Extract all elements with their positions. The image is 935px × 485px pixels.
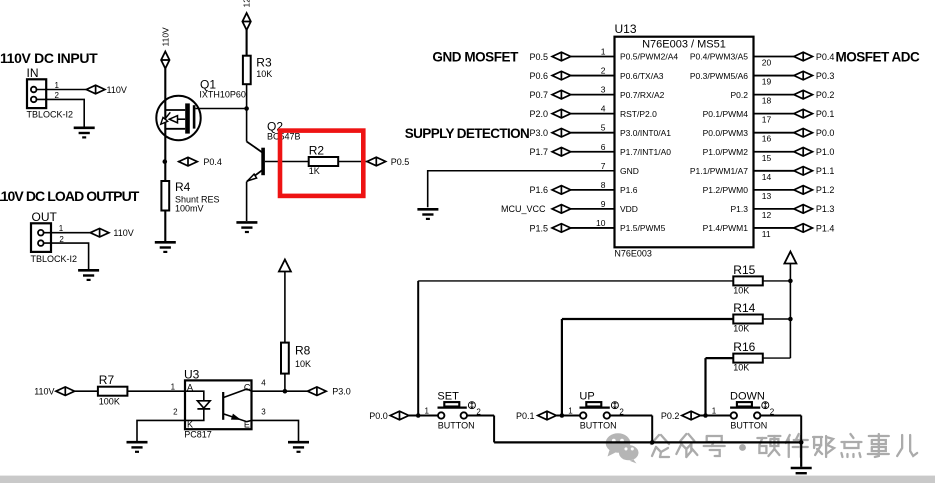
wire 12V to R3: [246, 30, 248, 56]
wire DOWN pin2 down: [800, 416, 802, 443]
svg-text:16: 16: [762, 134, 772, 144]
svg-text:P0.0: P0.0: [816, 128, 835, 138]
terminal 110V (output): [90, 228, 109, 237]
pin 17 (P0.1/PWM4): [703, 109, 772, 125]
terminal P3.0: [529, 128, 570, 138]
svg-text:10K: 10K: [256, 69, 272, 79]
terminal P1.6: [529, 185, 570, 195]
terminal P0.4: [794, 52, 835, 62]
terminal P0.6: [529, 71, 570, 81]
pin 14 (P1.1/PWM1/A7): [690, 166, 772, 182]
ground (buttons): [791, 468, 812, 478]
svg-text:2: 2: [601, 66, 606, 76]
pin 15 (P1.0/PWM2): [703, 147, 772, 163]
wire R14 to rail: [763, 318, 791, 320]
svg-text:P0.3/PWM5/A6: P0.3/PWM5/A6: [690, 71, 748, 81]
switch SET (BUTTON): [425, 390, 482, 430]
wire column R15 down to button: [417, 281, 419, 416]
wire P0.0 to SET pin1: [409, 415, 438, 417]
svg-text:110V: 110V: [113, 228, 133, 238]
svg-text:P1.0: P1.0: [816, 147, 835, 157]
terminal P0.1: [794, 109, 835, 119]
wire pin 17 to P0.1: [754, 113, 794, 115]
svg-text:1: 1: [59, 224, 64, 233]
wire SET pin2 down: [493, 416, 495, 443]
wire U13 GND pin to ground: [428, 171, 615, 208]
watermark wechat icon: [606, 433, 639, 463]
terminal P0.2: [661, 411, 701, 421]
svg-text:P1.4/PWM1: P1.4/PWM1: [703, 223, 749, 233]
svg-text:BUTTON: BUTTON: [730, 421, 767, 431]
wire pull-up rail: [789, 264, 791, 359]
wire R7 to U3 pin1: [127, 390, 185, 392]
terminal P0.4 (left): [179, 157, 198, 166]
svg-text:P0.2: P0.2: [816, 90, 835, 100]
pin 9 (VDD): [601, 199, 638, 214]
svg-text:MCU_VCC: MCU_VCC: [501, 204, 546, 214]
svg-text:8: 8: [601, 180, 606, 190]
svg-text:9: 9: [601, 199, 606, 209]
svg-text:GND MOSFET: GND MOSFET: [432, 50, 519, 65]
svg-text:BUTTON: BUTTON: [438, 421, 475, 431]
terminal P0.7: [529, 90, 570, 100]
decorative bottom bar: [0, 476, 935, 483]
svg-text:3: 3: [601, 85, 606, 95]
terminal P0.0: [794, 128, 835, 138]
svg-text:P0.2: P0.2: [661, 411, 680, 421]
svg-text:P3.0: P3.0: [529, 128, 548, 138]
pin 16 (P0.0/PWM3): [703, 128, 772, 144]
ground (U3 pin3): [288, 442, 309, 452]
svg-text:BC547B: BC547B: [267, 132, 301, 142]
pin 13 (P1.2/PWM0): [703, 185, 772, 201]
wire U3 pin4 to P3.0: [252, 390, 308, 392]
wire arrow to R8: [284, 272, 286, 343]
pin 11 (P1.4/PWM1): [703, 223, 771, 239]
terminal P1.4: [794, 223, 835, 233]
svg-text:P0.0: P0.0: [369, 411, 388, 421]
node UP-gnd: [650, 440, 655, 445]
svg-text:N76E003: N76E003: [614, 248, 652, 258]
wire R8 to node: [284, 374, 286, 392]
svg-text:P0.7/RX/A2: P0.7/RX/A2: [620, 90, 665, 100]
svg-text:17: 17: [762, 115, 772, 125]
wire U3 pin3 to ground: [252, 420, 299, 441]
resistor R15: [733, 263, 763, 295]
svg-text:4: 4: [601, 104, 606, 114]
svg-text:R8: R8: [295, 343, 311, 357]
wire pin 14 to P1.1: [754, 170, 794, 172]
wire Q2 base to R2: [265, 161, 309, 163]
node R8 junction: [283, 389, 288, 394]
svg-text:10K: 10K: [733, 323, 749, 333]
svg-text:GND: GND: [620, 166, 639, 176]
svg-text:P0.4: P0.4: [816, 52, 835, 62]
svg-text:12V: 12V: [241, 0, 251, 8]
pin 2 (P0.6/TX/A3): [601, 66, 664, 81]
svg-text:PC817: PC817: [184, 430, 212, 440]
ground (U13 pin7): [417, 209, 438, 219]
svg-text:19: 19: [762, 77, 772, 87]
resistor R2: [309, 143, 339, 176]
svg-text:P0.1: P0.1: [516, 411, 535, 421]
svg-text:3: 3: [261, 408, 266, 417]
svg-text:BUTTON: BUTTON: [580, 421, 617, 431]
svg-text:1: 1: [568, 407, 573, 416]
svg-text:110V: 110V: [34, 387, 54, 397]
svg-text:R7: R7: [99, 373, 115, 387]
svg-text:P1.7/INT1/A0: P1.7/INT1/A0: [620, 147, 671, 157]
node DOWN junction: [703, 413, 708, 418]
svg-text:R2: R2: [309, 143, 325, 157]
wire column R14 down to button: [561, 319, 563, 416]
svg-text:1: 1: [171, 382, 176, 391]
ground (U3 pin2): [127, 442, 148, 452]
svg-text:P1.5/PWM5: P1.5/PWM5: [620, 223, 666, 233]
wire OUT pin1 to 110V terminal: [44, 232, 91, 234]
svg-text:4: 4: [261, 378, 266, 387]
svg-text:P3.0: P3.0: [332, 387, 351, 397]
transistor Q1 IXTH10P60 (P-MOSFET): [156, 78, 246, 141]
svg-text:P1.1: P1.1: [816, 166, 835, 176]
svg-text:UP: UP: [579, 390, 594, 402]
terminal P1.2: [794, 185, 835, 195]
power terminal 110V (rail): [161, 27, 171, 47]
wire node to Q2 collector: [246, 109, 248, 142]
svg-text:R3: R3: [256, 56, 272, 70]
wire UP pin2 down: [651, 416, 653, 443]
wire R16 to button column: [706, 357, 734, 359]
wire Q2 emitter to ground: [246, 182, 248, 221]
svg-text:110V: 110V: [107, 85, 127, 95]
svg-text:SUPPLY DETECTION: SUPPLY DETECTION: [405, 126, 529, 141]
wire pin 13 to P1.2: [754, 189, 794, 191]
svg-text:OUT: OUT: [32, 210, 58, 224]
wire column R16 down to button: [704, 358, 706, 415]
wire R14 to button column: [562, 318, 733, 320]
wire pin 20 to P0.4: [754, 56, 794, 58]
wire Q1 gate to node: [195, 108, 246, 110]
terminal 110V (input): [86, 85, 105, 94]
svg-text:P0.4/PWM3/A5: P0.4/PWM3/A5: [690, 52, 748, 62]
wire U3 pin2 to ground: [137, 420, 185, 441]
terminal P1.3: [794, 204, 835, 214]
IC U13 N76E003/MS51: [614, 22, 753, 258]
wire pin 11 to P1.4: [754, 227, 794, 229]
svg-text:R4: R4: [175, 180, 191, 194]
wire button common ground run: [494, 441, 801, 443]
terminal P3.0 (supply detect): [308, 387, 351, 397]
svg-text:P0.5: P0.5: [391, 157, 410, 167]
svg-text:110V DC INPUT: 110V DC INPUT: [0, 50, 98, 66]
wire P0.7 to pin 3: [571, 94, 615, 96]
ground (Q2): [236, 222, 257, 232]
wire pin 19 to P0.3: [754, 75, 794, 77]
svg-text:1: 1: [601, 47, 606, 57]
svg-text:P2.0: P2.0: [529, 109, 548, 119]
connector J IN (TBLOCK-I2): [27, 66, 74, 120]
wire 110V to R7: [75, 390, 98, 392]
node DOWN-gnd: [799, 440, 804, 445]
terminal P0.0: [369, 411, 409, 421]
pin 6 (P1.7/INT1/A0): [601, 142, 672, 157]
svg-text:2: 2: [173, 408, 178, 417]
svg-text:P1.7: P1.7: [529, 147, 548, 157]
terminal P0.5: [529, 52, 570, 62]
wire to bottom ground: [800, 442, 802, 466]
svg-text:1: 1: [55, 81, 60, 90]
resistor R16: [733, 340, 763, 372]
svg-text:SET: SET: [437, 390, 459, 402]
svg-text:TBLOCK-I2: TBLOCK-I2: [27, 110, 74, 120]
svg-text:100K: 100K: [99, 397, 120, 407]
wire R16 to rail: [763, 357, 791, 359]
wire R15 to rail: [763, 280, 791, 282]
svg-text:P1.3: P1.3: [816, 204, 835, 214]
svg-text:10K: 10K: [733, 285, 749, 295]
svg-text:1: 1: [712, 407, 717, 416]
svg-text:12: 12: [762, 210, 772, 220]
svg-text:110V: 110V: [161, 27, 171, 47]
svg-text:P0.1/PWM4: P0.1/PWM4: [703, 109, 749, 119]
wire P0.6 to pin 2: [571, 75, 615, 77]
svg-text:P1.4: P1.4: [816, 223, 835, 233]
node UP junction: [560, 413, 565, 418]
node gate junction: [244, 106, 249, 111]
svg-text:P1.0/PWM2: P1.0/PWM2: [703, 147, 749, 157]
wire P0.2 to DOWN pin1: [700, 415, 730, 417]
power arrow (pull-up rail): [784, 252, 796, 264]
connector J OUT (TBLOCK-I2): [31, 210, 78, 264]
svg-text:U13: U13: [615, 22, 637, 36]
pin 19 (P0.3/PWM5/A6): [690, 71, 772, 87]
wire pin 18 to P0.2: [754, 94, 794, 96]
terminal P1.7: [529, 147, 570, 157]
wire R2 to P0.5 terminal: [338, 161, 367, 163]
wire IN pin1 to 110V terminal: [37, 89, 87, 91]
svg-text:15: 15: [762, 153, 772, 163]
wire pin 12 to P1.3: [754, 208, 794, 210]
svg-text:14: 14: [762, 172, 772, 182]
wire P1.7 to pin 6: [571, 151, 615, 153]
ground (R4): [155, 242, 176, 252]
svg-text:P1.2/PWM0: P1.2/PWM0: [703, 185, 749, 195]
svg-text:7: 7: [601, 161, 606, 171]
terminal MCU_VCC: [501, 204, 571, 214]
svg-text:20: 20: [762, 58, 772, 68]
resistor R4: [161, 180, 219, 213]
svg-text:P0.4: P0.4: [203, 157, 222, 167]
wire SET pin2: [467, 415, 494, 417]
wire P3.0 to pin 5: [571, 132, 615, 134]
wire IN pin2 to ground: [37, 99, 85, 127]
svg-text:P0.5/PWM2/A4: P0.5/PWM2/A4: [620, 52, 678, 62]
svg-text:P0.7: P0.7: [529, 90, 548, 100]
power arrow (R8 pull-up): [279, 260, 291, 272]
svg-text:11: 11: [762, 229, 771, 239]
terminal P1.0: [794, 147, 835, 157]
svg-text:R15: R15: [733, 263, 755, 277]
svg-text:IN: IN: [27, 66, 39, 80]
transistor Q2 BC547B (NPN): [247, 119, 301, 181]
watermark text 公众号·硬件那点事儿: [651, 434, 917, 457]
svg-text:TBLOCK-I2: TBLOCK-I2: [31, 254, 78, 264]
wire UP pin2: [610, 415, 652, 417]
resistor R14: [733, 301, 763, 333]
terminal P1.1: [794, 166, 835, 176]
svg-text:110V DC LOAD OUTPUT: 110V DC LOAD OUTPUT: [0, 188, 140, 204]
terminal P0.1: [516, 411, 556, 421]
svg-text:P0.5: P0.5: [529, 52, 548, 62]
wire node to P0.4 terminal: [177, 161, 180, 163]
node SET junction: [416, 413, 421, 418]
switch UP (BUTTON): [568, 390, 624, 430]
svg-text:IXTH10P60: IXTH10P60: [199, 90, 246, 100]
svg-text:10: 10: [596, 218, 606, 228]
terminal P0.3: [794, 71, 835, 81]
pin 3 (P0.7/RX/A2): [601, 85, 665, 100]
svg-text:P1.6: P1.6: [620, 185, 638, 195]
wire P1.5 to pin 10: [571, 227, 615, 229]
wire R15 to button column: [418, 280, 733, 282]
svg-text:VDD: VDD: [620, 204, 638, 214]
switch DOWN (BUTTON): [712, 390, 775, 430]
svg-text:P1.1/PWM1/A7: P1.1/PWM1/A7: [690, 166, 748, 176]
wire DOWN pin2: [760, 415, 801, 417]
ground (IN pin2): [74, 128, 95, 138]
svg-text:10K: 10K: [733, 363, 749, 373]
svg-text:P1.5: P1.5: [529, 223, 548, 233]
node P0.4 junction: [163, 159, 168, 164]
wire R4 to ground: [164, 211, 166, 242]
ground (OUT pin2): [78, 270, 99, 280]
svg-text:P0.6/TX/A3: P0.6/TX/A3: [620, 71, 664, 81]
svg-text:P1.2: P1.2: [816, 185, 835, 195]
wire pin 15 to P1.0: [754, 151, 794, 153]
node R15-rail: [788, 279, 793, 284]
svg-text:P1.3: P1.3: [731, 204, 749, 214]
wire OUT pin2 to ground: [44, 243, 89, 269]
pin 7 (GND): [601, 161, 639, 176]
wire P2.0 to pin 4: [571, 113, 615, 115]
svg-text:RST/P2.0: RST/P2.0: [620, 109, 657, 119]
resistor R7: [98, 373, 128, 406]
optocoupler U3 PC817: [184, 368, 252, 440]
pin 4 (RST/P2.0): [601, 104, 657, 119]
svg-text:100mV: 100mV: [175, 203, 204, 213]
svg-text:P0.3: P0.3: [816, 71, 835, 81]
svg-text:5: 5: [601, 123, 606, 133]
svg-text:P0.2: P0.2: [731, 90, 749, 100]
red highlight rectangle: [280, 131, 363, 196]
wire pin 16 to P0.0: [754, 132, 794, 134]
power terminal 12V: [241, 0, 251, 8]
svg-text:P0.6: P0.6: [529, 71, 548, 81]
wire 110V rail to P0.4 node (through Q1): [164, 69, 166, 162]
terminal P2.0: [529, 109, 570, 119]
pin 10 (P1.5/PWM5): [596, 218, 666, 233]
pin 5 (P3.0/INT0/A1): [601, 123, 672, 138]
node R14-rail: [788, 317, 793, 322]
wire P0.1 to UP pin1: [556, 415, 580, 417]
svg-text:N76E003 / MS51: N76E003 / MS51: [642, 39, 726, 51]
terminal P0.5 (Q2 base): [367, 157, 386, 166]
svg-text:P0.0/PWM3: P0.0/PWM3: [703, 128, 749, 138]
svg-text:6: 6: [601, 142, 606, 152]
svg-text:18: 18: [762, 96, 772, 106]
resistor R8: [281, 343, 311, 374]
svg-text:DOWN: DOWN: [730, 390, 765, 402]
pin 1 (P0.5/PWM2/A4): [601, 47, 679, 62]
svg-text:P0.1: P0.1: [816, 109, 835, 119]
svg-text:R16: R16: [733, 340, 755, 354]
wire P0.5 to pin 1: [571, 56, 615, 58]
pin 8 (P1.6): [601, 180, 638, 195]
terminal 110V (R7): [34, 387, 74, 397]
svg-text:13: 13: [762, 191, 772, 201]
svg-text:R14: R14: [733, 301, 755, 315]
resistor R3: [243, 56, 272, 85]
svg-text:P1.6: P1.6: [529, 185, 548, 195]
pin 20 (P0.4/PWM3/A5): [690, 52, 772, 68]
pin 12 (P1.3): [731, 204, 772, 220]
wire P1.6 to pin 8: [571, 189, 615, 191]
svg-text:10K: 10K: [295, 359, 311, 369]
wire MCU_VCC to pin 9: [571, 208, 615, 210]
pin 18 (P0.2): [731, 90, 772, 106]
svg-text:1K: 1K: [309, 166, 320, 176]
svg-text:1: 1: [425, 407, 430, 416]
svg-text:P3.0/INT0/A1: P3.0/INT0/A1: [620, 128, 671, 138]
wire node to R4: [164, 162, 166, 181]
svg-text:MOSFET ADC: MOSFET ADC: [836, 50, 920, 65]
terminal P0.2: [794, 90, 835, 100]
terminal P1.5: [529, 223, 570, 233]
wire R3 to node: [246, 84, 248, 108]
